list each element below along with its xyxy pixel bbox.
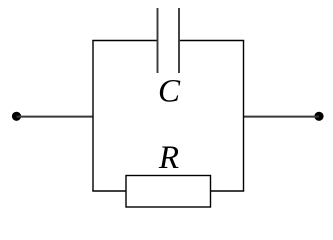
- capacitor C1 plate right: [178, 8, 180, 73]
- svg-text:R: R: [158, 140, 179, 176]
- wire (bottom left, to resistor): [92, 190, 126, 192]
- node A (left terminal dot): [12, 112, 21, 121]
- wire (right vertical branch): [243, 41, 245, 192]
- node B (right terminal dot): [314, 112, 323, 121]
- wire (right branch to right terminal): [244, 116, 320, 118]
- resistor R1 (box symbol): [126, 176, 211, 208]
- wire (left vertical branch): [92, 41, 94, 192]
- wire (left terminal to left branch): [17, 116, 94, 118]
- wire (bottom right, from resistor): [211, 190, 245, 192]
- wire (top left, to capacitor): [92, 40, 157, 42]
- svg-text:C: C: [158, 74, 181, 110]
- wire (top right, from capacitor): [179, 40, 244, 42]
- capacitor C1 plate left: [157, 8, 159, 73]
